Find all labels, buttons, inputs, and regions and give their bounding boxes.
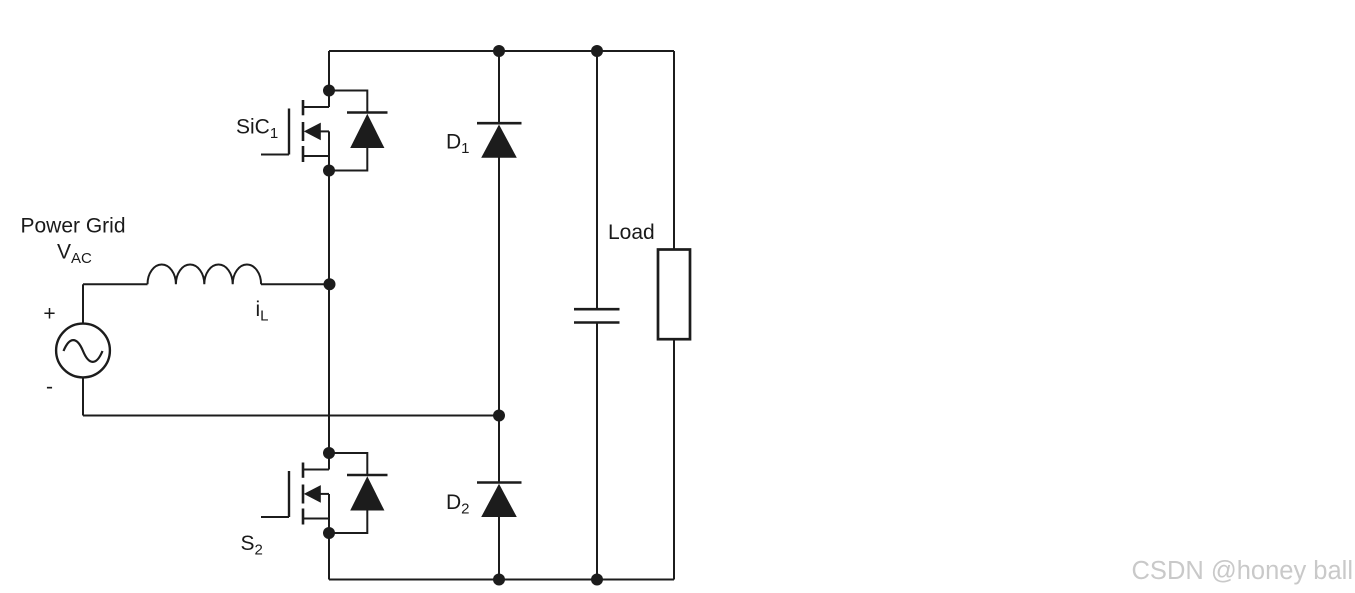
- wire D leg: D1 anode to midpoint junction: [498, 157, 500, 416]
- sine wave: [64, 340, 103, 362]
- svg-text:iL: iL: [256, 298, 269, 325]
- junction dot SiC1 drain: [323, 85, 335, 97]
- wire left leg: SiC1 source down through inductor node to S2 drain stub: [328, 131, 330, 469]
- junction dot: top rail / capacitor: [591, 45, 603, 57]
- junction dot S2 drain: [323, 447, 335, 459]
- svg-text:D1: D1: [446, 130, 470, 157]
- junction dot: bottom rail / D2: [493, 574, 505, 586]
- channel dash 2: [302, 122, 305, 141]
- wire top rail to capacitor: [596, 51, 598, 309]
- source stub: [303, 155, 329, 157]
- svg-text:Power Grid: Power Grid: [20, 215, 125, 238]
- diode triangle: [350, 476, 384, 510]
- junction dot: diode midpoint node: [493, 410, 505, 422]
- wire inductor to switch node: [261, 283, 329, 285]
- svg-text:SiC1: SiC1: [236, 116, 278, 143]
- channel dash 1: [302, 100, 305, 115]
- svg-text:CSDN @honey ball: CSDN @honey ball: [1132, 557, 1353, 585]
- gate bar: [288, 471, 290, 517]
- channel dash 1: [302, 463, 305, 478]
- junction dot S2 source: [323, 527, 335, 539]
- wire D leg: top rail to D1 cathode: [498, 51, 500, 123]
- transistor S2 (MOSFET symbol): [261, 463, 329, 525]
- svg-text:Load: Load: [608, 221, 655, 244]
- wire drain to diode cathode branch: [329, 453, 367, 475]
- wire middle return: AC source to diode midpoint: [83, 415, 499, 417]
- diode D1: [477, 123, 522, 158]
- wire bottom rail: [329, 579, 674, 581]
- svg-text:+: +: [43, 303, 55, 326]
- wire diode anode to source: [329, 510, 367, 534]
- wire D leg: midpoint junction to D2 cathode: [498, 416, 500, 483]
- cathode bar: [477, 481, 522, 484]
- capacitor top plate: [574, 308, 620, 311]
- drain stub: [303, 469, 329, 471]
- svg-text:D2: D2: [446, 491, 470, 518]
- body arrow: [304, 123, 321, 141]
- channel dash 2: [302, 485, 305, 504]
- body arrow: [304, 485, 321, 503]
- gate bar: [288, 109, 290, 155]
- wire capacitor to bottom rail: [596, 323, 598, 580]
- body stub: [319, 493, 329, 495]
- wire drain to diode cathode branch: [329, 91, 367, 113]
- source circle: [56, 324, 110, 378]
- capacitor bottom plate: [574, 321, 620, 324]
- wire left leg: S2 source to bottom rail: [328, 494, 330, 580]
- wire AC to inductor: [83, 283, 148, 285]
- diode triangle: [481, 484, 517, 517]
- junction dot: bottom rail / capacitor: [591, 574, 603, 586]
- channel dash 3: [302, 509, 305, 525]
- gate lead wire: [261, 516, 289, 518]
- inductor L: [148, 265, 262, 285]
- load branch: [658, 51, 690, 580]
- load resistor rectangle: [658, 250, 690, 340]
- body diode of S2: [329, 453, 388, 533]
- wire source plus terminal up to inductor: [82, 284, 84, 323]
- capacitor C (output cap): [574, 51, 620, 580]
- AC source VAC: [56, 284, 110, 415]
- junction dot: switch node / inductor: [324, 278, 336, 290]
- svg-text:S2: S2: [241, 532, 263, 559]
- wire source minus terminal down to return wire: [82, 377, 84, 415]
- body diode of SiC1: [329, 91, 388, 171]
- channel dash 3: [302, 146, 305, 162]
- diode D2: [477, 483, 522, 518]
- wire left leg: top rail to SiC1 drain stub: [328, 51, 330, 107]
- wire top rail: [329, 50, 674, 52]
- cathode bar: [347, 111, 388, 114]
- wire load to bottom rail: [673, 339, 675, 579]
- drain stub: [303, 106, 329, 108]
- gate lead wire: [261, 154, 289, 156]
- cathode bar: [347, 474, 388, 477]
- svg-text:-: -: [46, 376, 53, 399]
- junction dot SiC1 source: [323, 165, 335, 177]
- diode triangle: [350, 114, 384, 148]
- cathode bar: [477, 122, 522, 125]
- wire diode anode to source: [329, 147, 367, 171]
- transistor SiC1 (MOSFET symbol): [261, 100, 329, 162]
- wire top rail to load: [673, 51, 675, 250]
- wire D leg: D2 anode to bottom rail: [498, 516, 500, 580]
- diode triangle: [481, 125, 517, 158]
- junction dot: top rail / D1: [493, 45, 505, 57]
- source stub: [303, 518, 329, 520]
- svg-text:VAC: VAC: [57, 241, 92, 268]
- body stub: [319, 130, 329, 132]
